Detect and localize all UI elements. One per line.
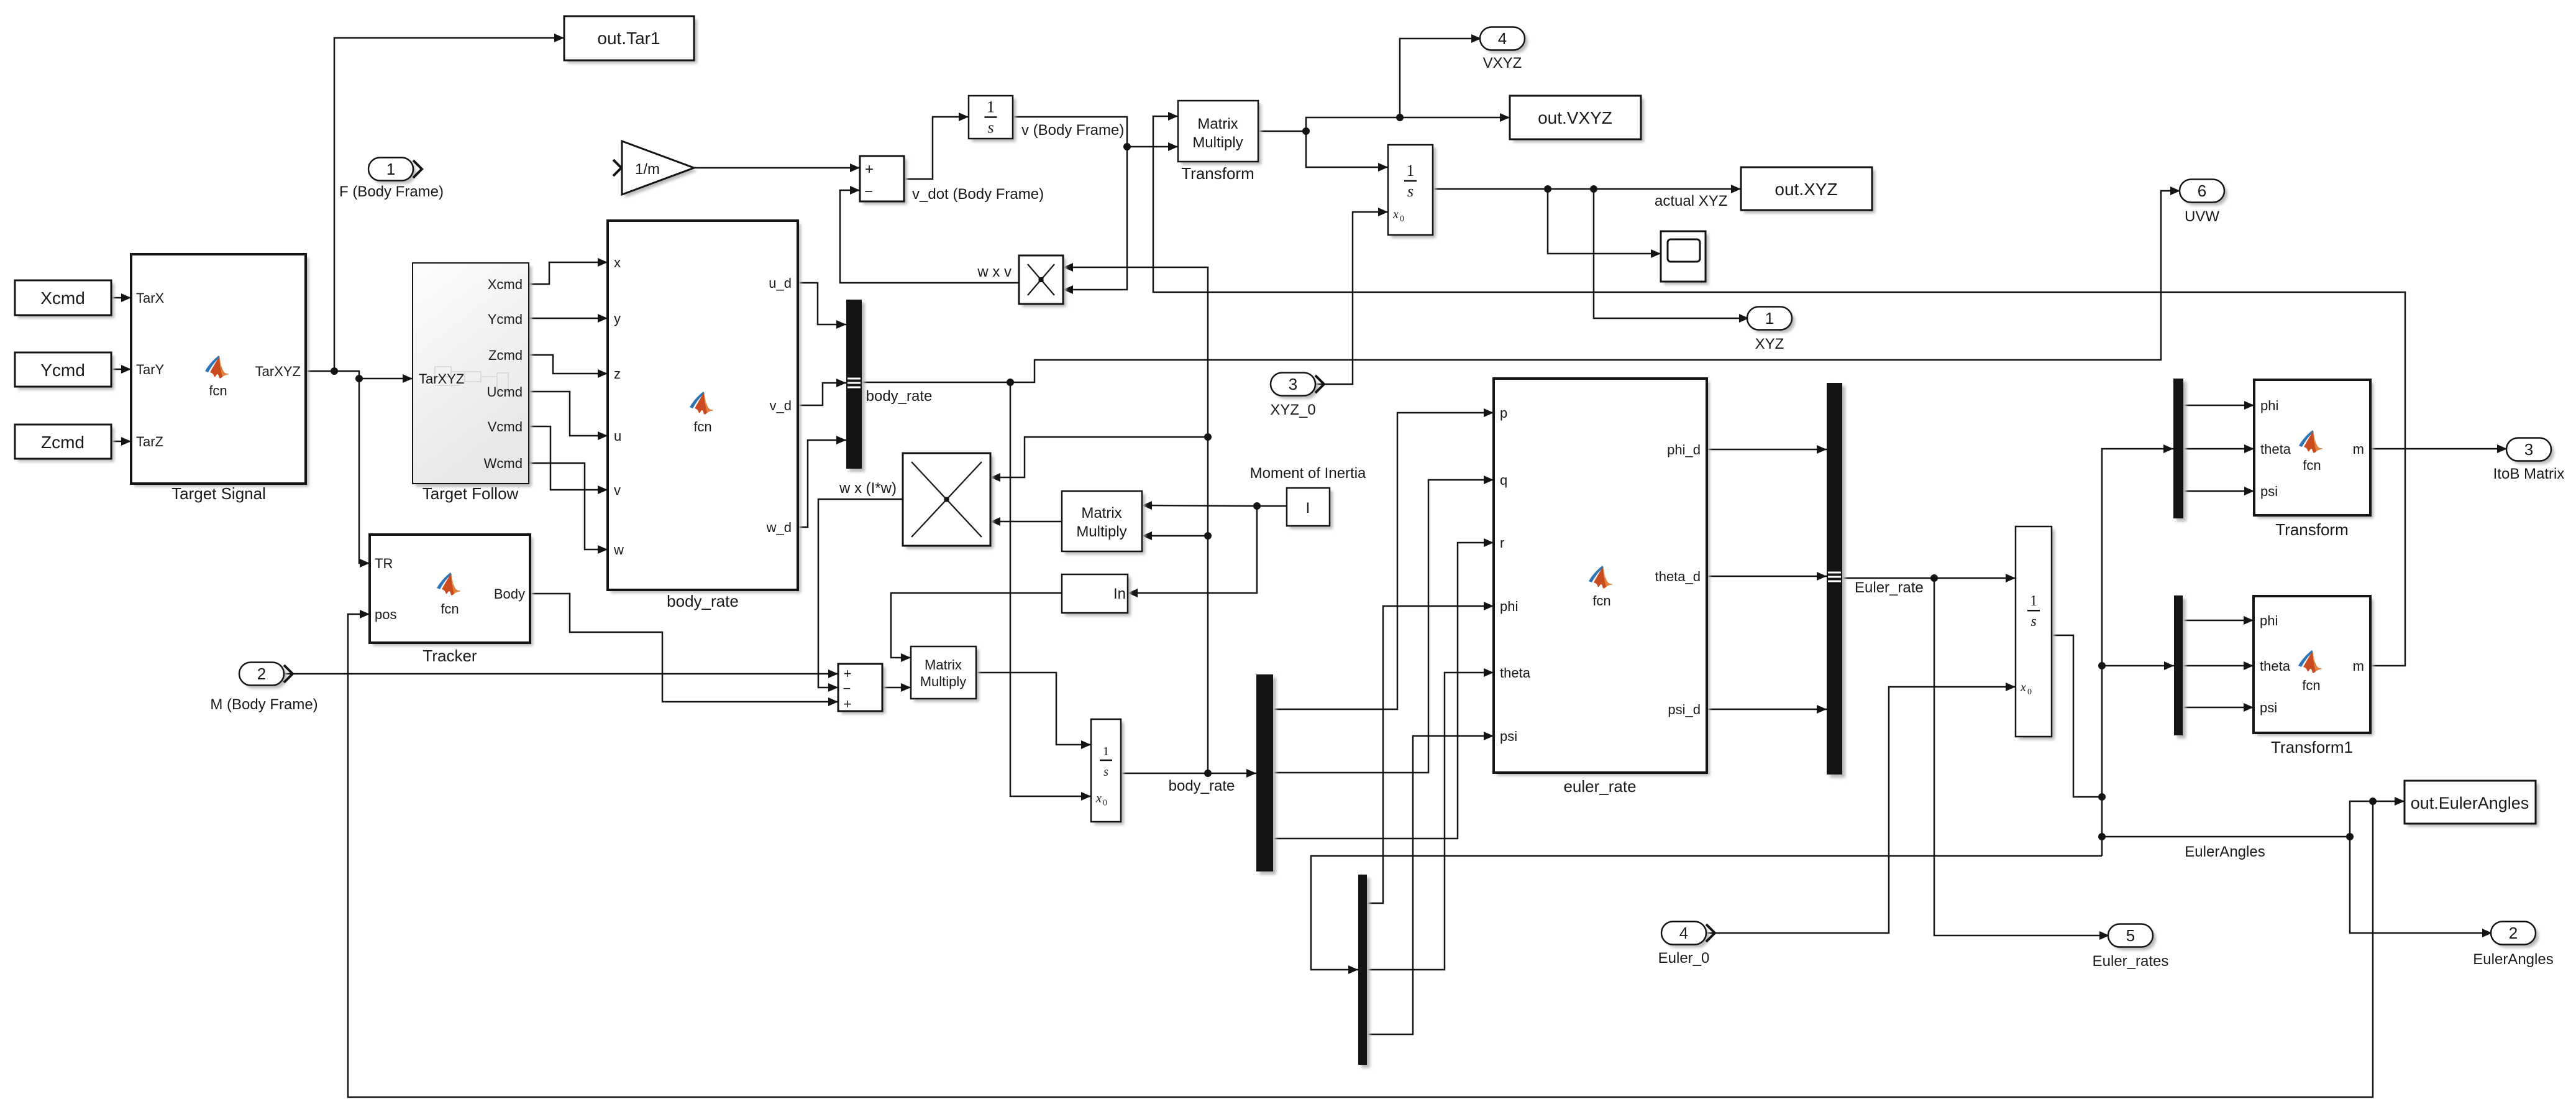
subsystem euler_rate xyxy=(1494,379,1710,796)
svg-text:Multiply: Multiply xyxy=(920,674,967,689)
svg-text:XYZ_0: XYZ_0 xyxy=(1270,402,1315,418)
mux Euler_rate bus xyxy=(1827,383,1924,778)
svg-text:Euler_rate: Euler_rate xyxy=(1855,579,1924,596)
svg-text:Ycmd: Ycmd xyxy=(40,361,85,380)
block out.Tar1 xyxy=(564,16,697,63)
svg-text:out.EulerAngles: out.EulerAngles xyxy=(2411,794,2529,812)
wire Target Follow Xcmd to body_rate x xyxy=(529,262,608,284)
svg-text:M (Body Frame): M (Body Frame) xyxy=(210,696,317,713)
svg-text:out.Tar1: out.Tar1 xyxy=(597,29,660,48)
wire v_d to Mux xyxy=(798,383,846,405)
block Xcmd xyxy=(15,280,114,318)
wire EulerAngles to out.EulerAngles, port 2 and feedback to Tracker pos xyxy=(348,614,2492,1097)
svg-text:x: x xyxy=(614,255,621,270)
svg-text:Wcmd: Wcmd xyxy=(484,456,523,471)
svg-text:1: 1 xyxy=(1103,745,1109,758)
svg-text:Matrix: Matrix xyxy=(1197,116,1238,132)
wire XYZ_0 to Integrator2 x0 xyxy=(1315,212,1388,384)
product w x (I*w) xyxy=(839,453,993,549)
svg-text:1: 1 xyxy=(2030,593,2037,609)
subsystem Target Signal xyxy=(131,254,309,503)
svg-text:I: I xyxy=(1306,500,1310,517)
block Matrix Multiply 3 xyxy=(911,646,979,702)
wire Sum output v_dot to Integrator xyxy=(904,117,969,179)
svg-text:psi: psi xyxy=(1500,729,1517,744)
svg-text:pos: pos xyxy=(375,607,396,622)
svg-text:1: 1 xyxy=(386,160,395,178)
subsystem body_rate xyxy=(608,221,801,610)
block out.VXYZ xyxy=(1510,96,1644,142)
svg-text:u: u xyxy=(614,428,621,444)
svg-text:w: w xyxy=(613,542,624,558)
wire Moment of Inertia I output to Matrix Multiply and In xyxy=(1128,502,1287,593)
wire Demux r to euler_rate xyxy=(1273,543,1494,839)
wire body_rate actual from Integrator2 to Demux with branches to products xyxy=(990,267,1256,777)
wire Tracker Body output to Sum2 xyxy=(530,594,838,702)
svg-text:fcn: fcn xyxy=(441,601,459,617)
wire v (Body Frame) from Integrator to Matrix Multiply and w x v xyxy=(1013,117,1178,290)
outport 6 UVW xyxy=(2180,180,2227,226)
svg-text:s: s xyxy=(1103,765,1108,779)
svg-text:3: 3 xyxy=(2524,440,2533,459)
svg-text:u_d: u_d xyxy=(769,275,792,291)
label EulerAngles wire xyxy=(2185,843,2265,860)
mux Transform1 input xyxy=(2174,595,2186,738)
svg-text:euler_rate: euler_rate xyxy=(1563,777,1636,796)
product w x v xyxy=(977,255,1066,307)
wire Xcmd to TarX xyxy=(111,297,131,299)
wire M (Body Frame) to Sum2 plus xyxy=(284,673,838,675)
wire EulerAngles from Integrator4 with branches xyxy=(1311,449,2350,970)
svg-text:z: z xyxy=(614,366,621,382)
block I Moment of Inertia xyxy=(1250,465,1366,529)
svg-text:psi: psi xyxy=(2260,484,2278,499)
svg-text:6: 6 xyxy=(2198,182,2206,200)
svg-text:Multiply: Multiply xyxy=(1076,523,1126,540)
block Zcmd xyxy=(15,425,114,462)
subsystem Target Follow xyxy=(413,263,532,503)
svg-text:In: In xyxy=(1113,586,1126,602)
outport 4 VXYZ xyxy=(1480,27,1528,72)
svg-text:1: 1 xyxy=(1407,162,1415,180)
svg-text:0: 0 xyxy=(1103,798,1107,807)
block In inertia inverse xyxy=(1062,574,1131,616)
wire actual XYZ from Integrator2 to out.XYZ, Scope, XYZ port xyxy=(1433,185,1749,318)
wire Target Follow Vcmd to body_rate v xyxy=(529,426,608,490)
svg-text:out.VXYZ: out.VXYZ xyxy=(1538,108,1612,127)
wire Euler_rate from Mux3 to Integrator4 and Euler_rates port xyxy=(1842,574,2109,935)
svg-text:0: 0 xyxy=(2027,687,2032,697)
svg-text:Transform1: Transform1 xyxy=(2271,738,2353,756)
svg-text:Matrix: Matrix xyxy=(925,657,962,673)
svg-text:Euler_rates: Euler_rates xyxy=(2093,953,2169,970)
svg-text:4: 4 xyxy=(1498,29,1507,48)
svg-text:theta: theta xyxy=(2260,658,2291,674)
svg-text:x: x xyxy=(1095,791,1102,805)
svg-text:Target Follow: Target Follow xyxy=(422,484,519,503)
scope xyxy=(1661,231,1709,285)
svg-text:Xcmd: Xcmd xyxy=(40,288,85,308)
svg-text:phi: phi xyxy=(2260,398,2278,413)
svg-text:1: 1 xyxy=(1765,309,1774,328)
svg-text:s: s xyxy=(1407,182,1414,200)
svg-text:Ucmd: Ucmd xyxy=(487,384,523,400)
svg-text:body_rate: body_rate xyxy=(1169,778,1235,794)
svg-text:p: p xyxy=(1500,405,1507,421)
demux euler angles feedback xyxy=(1358,875,1370,1068)
svg-text:v (Body Frame): v (Body Frame) xyxy=(1021,122,1124,139)
wire Target Follow Ucmd to body_rate u xyxy=(529,392,608,436)
wire Matrix Multiply 3 output to body rate Integrator xyxy=(976,673,1091,745)
wire u_d to Mux xyxy=(798,283,846,324)
wire Demux q to euler_rate xyxy=(1273,480,1494,773)
svg-text:TarZ: TarZ xyxy=(136,434,163,449)
svg-text:fcn: fcn xyxy=(693,419,711,434)
sum v_dot xyxy=(860,156,1044,205)
block Matrix Multiply Transform xyxy=(1178,101,1261,183)
svg-text:XYZ: XYZ xyxy=(1755,336,1784,352)
svg-text:Ycmd: Ycmd xyxy=(488,311,523,327)
svg-text:q: q xyxy=(1500,472,1507,488)
integrator 1/s body rates with x0 xyxy=(1091,719,1235,825)
svg-text:−: − xyxy=(864,183,873,200)
wire euler_rate theta_d to Mux3 xyxy=(1707,576,1827,577)
svg-text:v_d: v_d xyxy=(770,398,792,413)
svg-text:theta: theta xyxy=(1500,665,1531,681)
inport 2 M (Body Frame) xyxy=(210,663,317,714)
wire w_d to Mux xyxy=(798,440,846,527)
svg-text:TarXYZ: TarXYZ xyxy=(255,364,301,379)
svg-text:Zcmd: Zcmd xyxy=(488,347,523,363)
svg-text:fcn: fcn xyxy=(209,383,227,398)
svg-text:psi: psi xyxy=(2260,700,2277,715)
svg-text:theta: theta xyxy=(2260,441,2291,457)
wire Mux5 outputs to Transform1 xyxy=(2183,620,2254,707)
svg-text:s: s xyxy=(2030,614,2036,630)
svg-text:r: r xyxy=(1500,535,1504,551)
svg-text:1/m: 1/m xyxy=(635,161,660,178)
subsystem Transform1 xyxy=(2254,596,2373,756)
wire Euler_0 to Integrator4 x0 xyxy=(1707,687,2016,933)
integrator 1/s velocity xyxy=(969,96,1124,142)
svg-text:Moment of Inertia: Moment of Inertia xyxy=(1250,465,1366,482)
gain 1/m xyxy=(613,141,697,198)
svg-text:fcn: fcn xyxy=(1592,593,1610,609)
block Matrix Multiply 2 xyxy=(1062,491,1145,554)
svg-text:Multiply: Multiply xyxy=(1192,134,1243,151)
svg-text:5: 5 xyxy=(2126,926,2135,945)
wire Transform m to ItoB Matrix port xyxy=(2370,448,2507,450)
wire euler_rate phi_d to Mux3 xyxy=(1707,449,1827,451)
svg-text:4: 4 xyxy=(1679,924,1688,942)
wire Demux4 psi to euler_rate xyxy=(1367,736,1494,1034)
wire Target Follow Zcmd to body_rate z xyxy=(529,355,608,374)
svg-text:v: v xyxy=(614,482,621,498)
svg-text:Transform: Transform xyxy=(1181,164,1254,183)
outport 3 ItoB Matrix xyxy=(2493,438,2565,483)
svg-text:2: 2 xyxy=(2509,924,2518,942)
svg-text:w x (I*w): w x (I*w) xyxy=(839,480,897,497)
svg-text:−: − xyxy=(843,681,851,696)
inport 4 Euler_0 xyxy=(1658,922,1715,967)
wire Target Follow Wcmd to body_rate w xyxy=(529,463,608,549)
svg-text:phi_d: phi_d xyxy=(1667,442,1701,457)
svg-text:Matrix: Matrix xyxy=(1081,505,1121,522)
wire Sum2 output to Matrix Multiply 3 xyxy=(882,687,911,689)
svg-text:3: 3 xyxy=(1289,375,1297,393)
subsystem Tracker xyxy=(370,535,533,665)
inport 3 XYZ_0 xyxy=(1270,373,1324,419)
svg-text:+: + xyxy=(865,161,874,178)
wire Mux6 outputs to Transform xyxy=(2183,405,2254,491)
integrator 1/s position with x0 xyxy=(1388,145,1436,238)
wire Demux p to euler_rate xyxy=(1273,413,1494,709)
svg-text:VXYZ: VXYZ xyxy=(1483,55,1522,71)
svg-text:Target Signal: Target Signal xyxy=(171,484,266,503)
demux body rates xyxy=(1256,674,1276,875)
wire Demux4 phi to euler_rate xyxy=(1367,606,1494,903)
svg-text:UVW: UVW xyxy=(2185,208,2219,225)
svg-text:x: x xyxy=(1392,208,1399,221)
svg-text:out.XYZ: out.XYZ xyxy=(1774,180,1837,199)
svg-text:body_rate: body_rate xyxy=(866,388,933,405)
svg-text:Transform: Transform xyxy=(2275,520,2349,539)
svg-text:w_d: w_d xyxy=(766,520,792,535)
svg-text:Xcmd: Xcmd xyxy=(488,277,523,292)
svg-text:body_rate: body_rate xyxy=(667,592,739,610)
svg-text:Zcmd: Zcmd xyxy=(41,433,84,452)
svg-text:EulerAngles: EulerAngles xyxy=(2473,951,2553,968)
svg-text:y: y xyxy=(614,311,621,326)
integrator 1/s euler angles with x0 xyxy=(2016,526,2055,740)
mux body_rate bus xyxy=(846,300,932,472)
sum moments xyxy=(838,664,885,714)
svg-text:+: + xyxy=(844,666,852,681)
svg-text:2: 2 xyxy=(257,664,266,683)
svg-text:TarXYZ: TarXYZ xyxy=(419,371,464,387)
svg-text:phi: phi xyxy=(1500,599,1518,614)
svg-text:TarY: TarY xyxy=(136,362,165,377)
svg-text:TarX: TarX xyxy=(136,290,165,306)
block out.EulerAngles xyxy=(2405,781,2539,827)
svg-text:fcn: fcn xyxy=(2302,678,2320,693)
svg-text:actual XYZ: actual XYZ xyxy=(1655,193,1727,209)
outport 2 EulerAngles xyxy=(2473,922,2553,968)
svg-text:psi_d: psi_d xyxy=(1668,702,1701,717)
svg-text:theta_d: theta_d xyxy=(1655,569,1701,584)
svg-text:+: + xyxy=(844,696,852,712)
subsystem Transform xyxy=(2254,380,2373,539)
svg-text:0: 0 xyxy=(1400,214,1404,224)
block out.XYZ xyxy=(1655,167,1875,213)
svg-text:TR: TR xyxy=(375,556,393,571)
wire Ycmd to TarY xyxy=(111,369,131,370)
outport 1 XYZ xyxy=(1747,307,1795,353)
wire TarXYZ from Target Signal to Target Follow with branches xyxy=(306,38,564,563)
svg-text:Vcmd: Vcmd xyxy=(488,419,523,434)
svg-text:ItoB Matrix: ItoB Matrix xyxy=(2493,466,2565,482)
svg-text:phi: phi xyxy=(2260,613,2278,628)
wire Target Follow Ycmd to body_rate y xyxy=(529,318,608,319)
svg-text:EulerAngles: EulerAngles xyxy=(2185,843,2265,860)
wire m matrix feedback from Transform1 to Matrix Multiply xyxy=(1153,116,2405,666)
svg-text:1: 1 xyxy=(987,98,995,116)
block Ycmd xyxy=(15,352,114,390)
wire body_rate command from Mux to UVW port and integrator x0 xyxy=(862,191,2180,796)
wire euler_rate psi_d to Mux3 xyxy=(1707,709,1827,710)
wire Transform Matrix Multiply output to out.VXYZ, VXYZ port, Integrator2 xyxy=(1258,39,1510,167)
svg-text:Euler_0: Euler_0 xyxy=(1658,950,1710,967)
svg-text:v_dot (Body Frame): v_dot (Body Frame) xyxy=(912,186,1044,203)
wire w x v output to Sum minus input xyxy=(840,190,1019,283)
svg-text:F (Body Frame): F (Body Frame) xyxy=(339,183,444,200)
svg-text:Tracker: Tracker xyxy=(422,646,477,665)
svg-text:m: m xyxy=(2353,441,2364,457)
inport 1 F (Body Frame) xyxy=(339,158,444,201)
mux Transform input xyxy=(2173,379,2186,522)
wire Demux4 theta to euler_rate xyxy=(1367,673,1494,970)
svg-text:Body: Body xyxy=(494,586,525,602)
wire Zcmd to TarZ xyxy=(111,441,131,443)
svg-text:x: x xyxy=(2020,681,2026,694)
wire gain 1/m output to Sum xyxy=(694,167,860,169)
svg-text:w x v: w x v xyxy=(977,264,1012,280)
wire product w x (I*w) output to Sum2 minus xyxy=(818,499,903,687)
svg-text:fcn: fcn xyxy=(2303,457,2321,473)
wire In output to Matrix Multiply 3 xyxy=(891,593,1062,658)
outport 5 Euler_rates xyxy=(2093,924,2169,970)
svg-text:m: m xyxy=(2353,658,2364,674)
wire Matrix Multiply 2 output to product w x (I*w) xyxy=(990,521,1062,523)
svg-text:s: s xyxy=(987,119,993,137)
